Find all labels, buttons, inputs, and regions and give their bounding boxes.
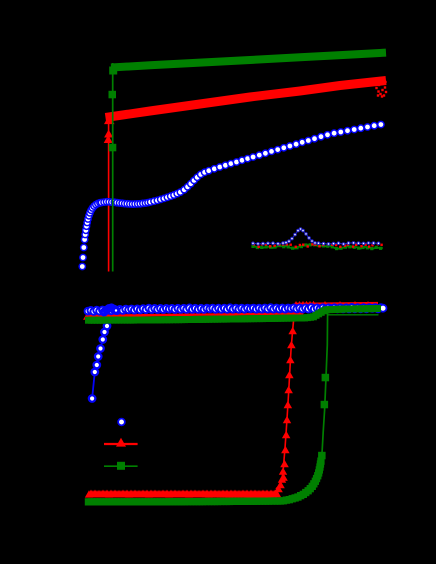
node red left tip triangle xyxy=(83,315,89,320)
resistor R-band red upper band top panel xyxy=(106,81,387,118)
node blue descent markers xyxy=(89,323,110,402)
node legend red line and triangle xyxy=(104,438,138,447)
resistor red bottom band of triangles xyxy=(85,490,281,498)
node red triangles on vertical line xyxy=(104,130,113,144)
wire red vertical drop line top panel xyxy=(108,120,110,272)
node legend green line and square xyxy=(104,462,138,470)
resistor green upper band bottom panel xyxy=(85,305,381,324)
node blue end marker bottom panel xyxy=(380,305,387,312)
capacitor-chain blue open-circle curve top panel xyxy=(98,121,384,207)
wire red upper-left line bottom panel xyxy=(86,314,304,316)
node red left-end triangle marker xyxy=(104,115,115,124)
node inset red scatter dots xyxy=(253,243,383,248)
resistor green bottom band of squares with J-curve xyxy=(85,458,325,506)
wire red steep rise line bottom panel xyxy=(276,304,295,489)
capacitor-chain blue flat chain bottom panel xyxy=(85,304,385,315)
node green corner square xyxy=(109,67,117,75)
node red small triangles on upper-right line xyxy=(294,301,370,305)
wire thin green line under right band xyxy=(327,314,379,316)
node blue junction bump markers xyxy=(101,305,119,315)
node green squares on drop line xyxy=(318,374,329,460)
node legend blue circle xyxy=(118,419,125,426)
diagram inset blue peak curve xyxy=(252,228,380,246)
wire green vertical drop line top panel xyxy=(112,63,114,272)
capacitor-chain blue open-circle tail dots top panel xyxy=(79,200,103,270)
node green squares on vertical line xyxy=(109,91,117,152)
wire blue descent line bottom panel xyxy=(92,320,109,399)
wire green drop line bottom panel xyxy=(322,311,328,459)
wire red upper-right line bottom panel xyxy=(295,302,379,305)
node red triangles on steep rise xyxy=(274,327,297,492)
resistor G-band green upper band top panel xyxy=(111,53,386,68)
node red scatter at band end xyxy=(375,81,387,98)
diagram inset baseline green noisy trace xyxy=(251,243,382,250)
